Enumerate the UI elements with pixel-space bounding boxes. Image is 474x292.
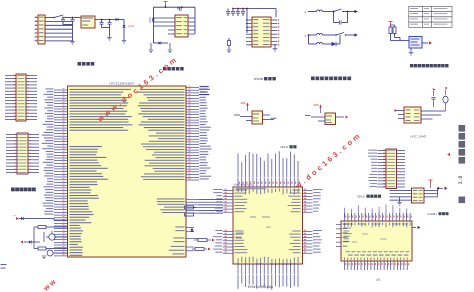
U1 bottom right misc pins xyxy=(186,228,198,251)
power flag C11 xyxy=(432,88,435,90)
wire serial net to U4 xyxy=(199,88,210,90)
junction xyxy=(165,6,167,8)
U1 right pins lower group xyxy=(186,200,199,214)
ground xyxy=(107,38,112,41)
U11 interior scatter text xyxy=(362,233,368,236)
capacitor C12 electrolytic xyxy=(443,96,448,103)
label watchdog circuit xyxy=(163,67,167,71)
wire xyxy=(343,11,355,13)
capacitor C3 xyxy=(101,20,103,23)
U10 bottom pins xyxy=(238,264,298,274)
IC U11 body xyxy=(341,221,412,261)
switch K1 xyxy=(334,9,342,12)
arrow out xyxy=(355,10,358,14)
label serial config download circuit xyxy=(410,64,413,67)
capacitor C8 xyxy=(232,9,234,12)
test point arrow TP1 xyxy=(16,217,19,220)
capacitor C2 xyxy=(72,18,74,20)
resistor R7 with arrow xyxy=(192,248,195,250)
U1 lower right interior names xyxy=(157,198,185,254)
label protection circuit xyxy=(311,77,315,81)
svg-text:CPLD: CPLD xyxy=(358,195,365,199)
U10 left net labels xyxy=(213,189,223,253)
U10 right net labels xyxy=(313,189,323,253)
wire xyxy=(390,34,392,41)
U8 right pins xyxy=(421,110,446,112)
connector J2 Y-axis driver xyxy=(16,74,26,121)
connector J4 CPLD gate drive xyxy=(386,149,397,189)
ground xyxy=(409,53,414,56)
arrow out xyxy=(429,41,432,44)
U9 left pins xyxy=(390,191,412,201)
wire to LED xyxy=(118,19,124,21)
connector J3 X-axis driver xyxy=(17,133,28,174)
U10 right pins xyxy=(303,191,313,254)
resistor R5 xyxy=(185,213,194,216)
U10 interior bottom names xyxy=(238,257,299,266)
ground under U4 xyxy=(274,44,276,48)
power flag U7 xyxy=(319,105,321,108)
diode D2 xyxy=(159,42,161,45)
svg-text:LPC JTAG: LPC JTAG xyxy=(411,135,427,139)
power flag U6 xyxy=(246,103,248,106)
wire top rail MAX232 xyxy=(233,8,276,10)
diode D5 xyxy=(29,241,31,244)
U11 top pin numbers xyxy=(345,216,412,218)
resistor R3 xyxy=(393,27,396,34)
junction xyxy=(101,19,103,21)
U6 net labels xyxy=(234,115,240,116)
svg-text:+3.3V: +3.3V xyxy=(128,25,135,28)
U1 interior pin names xyxy=(70,89,185,256)
IC U6 xyxy=(252,111,263,124)
LED DS1 xyxy=(122,25,125,28)
U11 interior bottom text xyxy=(348,255,408,256)
red arrow caption xyxy=(447,153,450,156)
wire down xyxy=(410,48,412,52)
U7 net label xyxy=(305,115,311,116)
svg-text:EPM7128SLC84: EPM7128SLC84 xyxy=(248,285,273,289)
resistor R1 xyxy=(228,38,230,41)
capacitor C6 xyxy=(152,18,154,22)
arrow out U11 xyxy=(412,227,416,229)
wire left rail xyxy=(153,7,155,33)
IC U8 JTAG buffer xyxy=(404,107,421,123)
diode D4 xyxy=(19,218,22,220)
varistor RV1 xyxy=(340,21,342,25)
ground xyxy=(70,42,75,45)
U10 interior top names xyxy=(238,189,299,195)
U1 left pin numbers xyxy=(63,88,65,255)
U10 interior left names xyxy=(235,190,301,254)
wire opto branch xyxy=(308,35,310,44)
inductor L1 xyxy=(317,10,323,12)
wire xyxy=(308,11,317,13)
U4 right pins xyxy=(271,20,277,45)
U9 right pins xyxy=(424,191,438,197)
arrow out U7 xyxy=(346,116,349,119)
transistor Q1 xyxy=(49,234,55,240)
resistor R8 xyxy=(38,226,46,229)
wire xyxy=(336,43,340,45)
transistor Q2 xyxy=(47,250,53,256)
U10 side pin numbers xyxy=(225,189,227,253)
svg-text:3. 8: 3. 8 xyxy=(458,176,464,185)
U4 pin numbers xyxy=(278,19,280,45)
resistor R4 xyxy=(185,206,194,209)
inductor L2 xyxy=(317,34,323,36)
config device U5 xyxy=(409,37,422,49)
U1 left pins xyxy=(54,90,68,256)
U11 interior left text xyxy=(343,224,349,247)
capacitor C1 xyxy=(62,18,64,20)
IC U10 EPM7128SLC84 body xyxy=(233,187,303,264)
wire bus left drivers xyxy=(33,227,35,249)
capacitor C9 xyxy=(237,9,239,12)
U11 bottom pins xyxy=(345,261,408,270)
wire MAX232 left rail xyxy=(246,9,248,34)
U1 right pin numbers xyxy=(189,86,191,180)
wires U1 to CPLD xyxy=(199,200,223,214)
U3 right pins xyxy=(188,18,195,34)
U1 right pins upper xyxy=(186,88,199,181)
wire to U1 xyxy=(53,219,55,221)
U8 left pins xyxy=(396,110,404,112)
wire xyxy=(346,34,355,36)
U7 pins xyxy=(311,116,325,118)
test point arrow TP2 xyxy=(20,241,23,244)
U1 left net labels xyxy=(42,88,54,214)
ground xyxy=(42,256,47,259)
U11 interior top names xyxy=(344,223,411,228)
ground xyxy=(150,43,152,50)
wire xyxy=(437,188,439,198)
title block table xyxy=(409,6,452,27)
LED opto xyxy=(332,42,337,46)
U10 bottom net labels vertical xyxy=(238,275,299,290)
voltage regulator U2 xyxy=(81,16,95,28)
wire xyxy=(323,11,334,13)
caption figure 3.8 system schematic vertical xyxy=(459,125,466,203)
U5 right pin xyxy=(422,42,428,44)
diode D3 xyxy=(191,228,193,230)
IC U1 LPC2119 body xyxy=(68,86,187,257)
wire regulator output xyxy=(95,19,116,21)
J4 left net labels xyxy=(368,150,377,188)
ground xyxy=(122,41,127,44)
U10 top pins xyxy=(238,178,298,188)
svg-text:LPC2119FBD64: LPC2119FBD64 xyxy=(109,81,134,85)
capacitor C11 xyxy=(432,98,436,100)
power flag C12 xyxy=(446,87,448,89)
label X-axis row driver circuit xyxy=(11,188,15,192)
arrow out xyxy=(355,33,358,37)
U1 interior right pin names xyxy=(141,133,185,180)
svg-text:EPM7128SLC84: EPM7128SLC84 xyxy=(234,184,252,187)
stray net label bottom left xyxy=(1,264,7,265)
ground xyxy=(169,43,171,50)
U11 top pins xyxy=(345,213,411,221)
wire xyxy=(390,25,392,27)
U10 top pin numbers xyxy=(239,182,300,184)
U10 interior misc xyxy=(250,217,256,218)
capacitor C4 xyxy=(109,20,111,23)
svg-text:JS1: JS1 xyxy=(376,279,381,282)
U1 right net labels xyxy=(200,86,212,180)
switch K2 xyxy=(336,32,344,35)
power flag xyxy=(164,2,168,6)
switch S1 xyxy=(54,15,63,18)
table text xyxy=(410,7,418,10)
wire xyxy=(308,34,317,36)
U10 top net labels vertical xyxy=(238,151,299,177)
U11 top net labels xyxy=(344,204,407,217)
wire right rail xyxy=(194,7,196,34)
J1 pin numbers xyxy=(35,16,37,40)
power flag VCC xyxy=(389,22,393,26)
U4 left pins xyxy=(246,20,252,45)
junction xyxy=(437,187,439,189)
wire xyxy=(323,34,337,36)
U6 pins xyxy=(240,116,252,118)
junction xyxy=(62,17,64,19)
resistor R2 xyxy=(389,27,392,34)
wire xyxy=(323,43,332,45)
resistor R6 with arrow xyxy=(194,239,198,241)
U10 left pins xyxy=(223,191,233,254)
resistor R9 xyxy=(38,247,46,250)
diode D1 xyxy=(116,18,119,21)
snubber loop xyxy=(333,12,335,23)
IC U9 FLASH xyxy=(412,188,425,203)
capacitor C7 xyxy=(227,9,229,12)
wire +V top xyxy=(45,17,54,19)
IC U7 xyxy=(325,113,336,125)
U11 left pins xyxy=(336,225,341,247)
svg-text:U10: U10 xyxy=(266,226,271,229)
IC U4 MAX232 xyxy=(252,17,271,47)
inductor L3 xyxy=(317,43,323,45)
power flag VCC U9 xyxy=(429,180,433,184)
svg-text:RS232: RS232 xyxy=(254,77,264,81)
capacitor C10 xyxy=(242,9,244,12)
svg-text:FLASH: FLASH xyxy=(428,212,437,216)
ground U9 xyxy=(399,197,401,202)
junction xyxy=(232,8,234,10)
wire J1 output bus xyxy=(45,21,73,41)
arrow out U9 xyxy=(440,187,443,189)
wire top rail xyxy=(154,6,196,8)
label dian-yuan-dian-lu (power circuit) xyxy=(78,62,82,66)
ground xyxy=(228,46,230,50)
U3 left pins xyxy=(168,18,175,34)
U11 bottom pin numbers xyxy=(345,263,409,265)
svg-text:CPLD: CPLD xyxy=(281,145,288,149)
connector J1 power input xyxy=(38,15,45,44)
capacitor C5 xyxy=(177,7,179,9)
arrow in JTAG xyxy=(395,109,397,112)
watchdog IC U3 xyxy=(175,15,188,37)
